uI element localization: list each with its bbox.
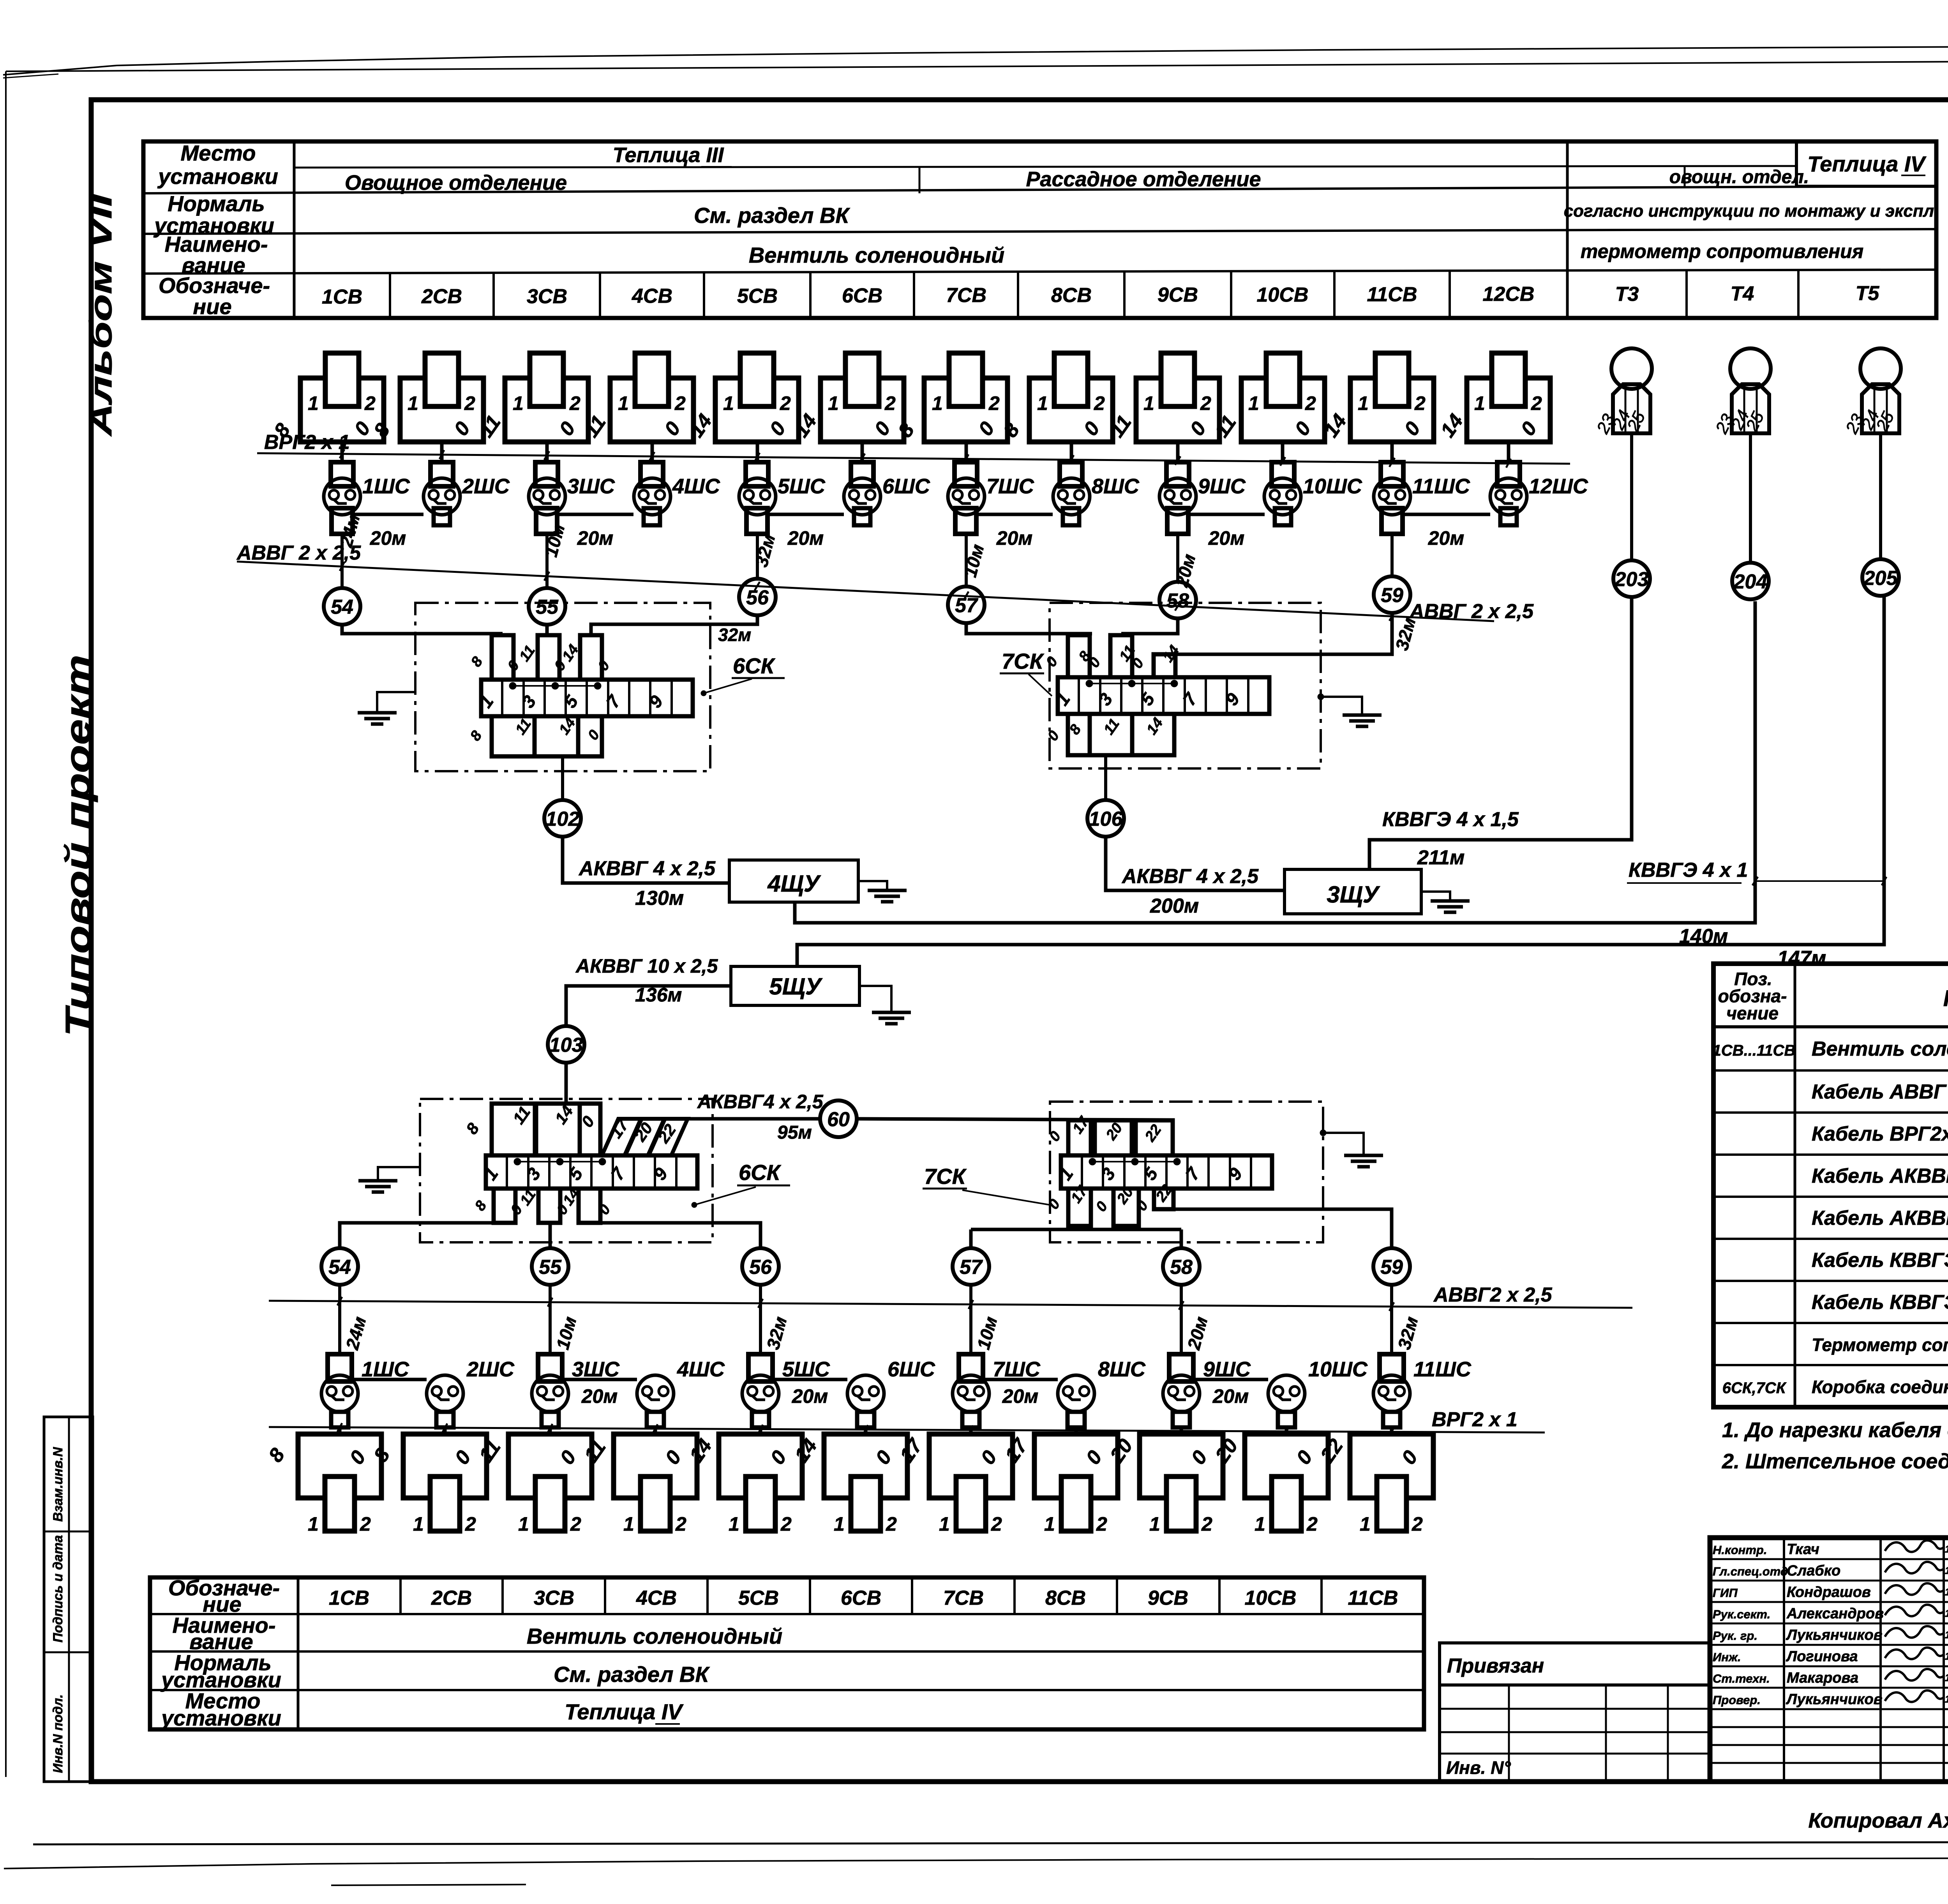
6СК (lower) lower taps [494, 1189, 515, 1223]
svg-text:5ШС: 5ШС [782, 1358, 830, 1381]
solenoid valve 3СВ (bottom row) [508, 1434, 592, 1498]
solenoid valve 4СВ (top row) [610, 378, 693, 442]
svg-text:1: 1 [729, 1513, 739, 1535]
svg-text:Кабель АВВГ 2х2,5 ГОСТ 16442: Кабель АВВГ 2х2,5 ГОСТ 16442-80 [1812, 1081, 1948, 1103]
wire 6СК to 55 (lower) [549, 1223, 552, 1248]
svg-text:Типовой проект: Типовой проект [58, 655, 98, 1037]
plug connector 4ШС (top row) [641, 462, 663, 486]
svg-text:Инж.: Инж. [1713, 1650, 1741, 1664]
wire 56 to 6СК [591, 615, 757, 635]
svg-text:55: 55 [539, 1256, 562, 1279]
plug connector 3ШС (lower row) [538, 1354, 562, 1381]
svg-text:58: 58 [1166, 590, 1189, 612]
svg-text:4СВ: 4СВ [636, 1587, 677, 1609]
6СК (lower) slanted taps [602, 1119, 641, 1155]
parts table column lines [1794, 964, 1796, 1407]
svg-text:20м: 20м [1208, 527, 1245, 549]
wire КВВГЭ 4х1,5 Т3 to 3ЩУ [1369, 597, 1632, 869]
solenoid valve 9СВ (top row) [1136, 378, 1219, 442]
svg-text:3ЩУ: 3ЩУ [1327, 881, 1380, 908]
svg-text:1ШС: 1ШС [362, 1358, 409, 1381]
svg-text:Макарова: Макарова [1787, 1670, 1858, 1686]
solenoid valve 1СВ (bottom row) [298, 1434, 381, 1498]
svg-text:Привязан: Привязан [1447, 1655, 1544, 1677]
svg-text:10ШС: 10ШС [1308, 1358, 1368, 1381]
svg-text:согласно инструкции по монтажу: согласно инструкции по монтажу и экспл. [1564, 201, 1939, 221]
cable node circle 106 [1087, 800, 1124, 837]
6СК (top) terminal strip [481, 680, 693, 716]
svg-text:10СВ: 10СВ [1245, 1587, 1297, 1609]
svg-text:8СВ: 8СВ [1051, 284, 1092, 307]
wire bus ВРГ2х1 (lower) [269, 1427, 1545, 1432]
svg-text:5ЩУ: 5ЩУ [769, 973, 823, 1000]
plug connector 1ШС (top row) [331, 462, 353, 486]
svg-text:АКВВГ 4 х 2,5: АКВВГ 4 х 2,5 [578, 857, 716, 880]
solenoid valve 8СВ (bottom row) [1034, 1434, 1118, 1498]
bus crossing ticks ВРГ (lower) [337, 1423, 342, 1432]
plug connector 8ШС (lower row) [1058, 1375, 1094, 1412]
solenoid valve 10СВ (bottom row) [1245, 1434, 1328, 1498]
svg-text:термометр сопротивления: термометр сопротивления [1581, 240, 1863, 262]
svg-text:11ШС: 11ШС [1412, 475, 1470, 498]
wire 4ЩУ to 140м run [795, 601, 1755, 923]
resistance thermometer Т5 [1860, 348, 1901, 389]
svg-text:130м: 130м [635, 887, 684, 910]
svg-text:Теплица IV: Теплица IV [1807, 152, 1927, 176]
svg-text:211м: 211м [1417, 846, 1465, 869]
svg-text:Термометр сопротивления гр.23: Термометр сопротивления гр.23 ТСМ 6097 [1812, 1335, 1948, 1355]
svg-text:2ШС: 2ШС [466, 1358, 515, 1381]
plug connector 1ШС (lower row) [328, 1354, 352, 1381]
top table col line 4324 [1684, 166, 1686, 187]
7СК (top) ground [1318, 694, 1324, 700]
svg-text:1: 1 [618, 392, 629, 414]
6СК (top) lower taps [492, 716, 535, 756]
svg-text:10ШС: 10ШС [1303, 475, 1362, 498]
svg-text:Взам.инв.N: Взам.инв.N [51, 1447, 65, 1522]
svg-text:4ЩУ: 4ЩУ [767, 871, 821, 897]
sheet torn top edge [3, 41, 1948, 75]
sheet outer bottom line [33, 1842, 1948, 1844]
wire 54 to 6СК [342, 625, 503, 634]
svg-text:2: 2 [1531, 392, 1542, 414]
solenoid valve 9СВ (bottom row) [1140, 1434, 1223, 1498]
wire 103 to 6СК lower [565, 1063, 568, 1104]
svg-text:136м: 136м [635, 984, 682, 1006]
svg-text:20м: 20м [1428, 527, 1465, 549]
svg-text:8СВ: 8СВ [1045, 1587, 1086, 1609]
svg-text:Ткач: Ткач [1787, 1541, 1819, 1558]
svg-text:14.01.86: 14.01.86 [1945, 1607, 1948, 1619]
svg-text:6СК: 6СК [733, 654, 776, 678]
plug connector 7ШС (top row) [955, 462, 977, 486]
svg-text:2: 2 [780, 1513, 792, 1535]
svg-text:14.01.86: 14.01.86 [1945, 1693, 1948, 1705]
plug connector 12ШС (top row) [1497, 462, 1520, 486]
sheet outer left edge [5, 71, 7, 1777]
solenoid valve 7СВ (top row) [924, 378, 1008, 442]
resistance thermometer Т3 [1611, 348, 1652, 389]
svg-text:54: 54 [328, 1256, 351, 1279]
wire bus ВРГ2х1 (top) [257, 453, 1570, 464]
wire 7СК to 59 (lower) [1173, 1209, 1392, 1248]
svg-text:См. раздел ВК: См. раздел ВК [554, 1662, 710, 1687]
svg-text:Александров: Александров [1786, 1606, 1884, 1622]
cable node circle 56 (top) [739, 579, 776, 615]
solenoid valve 11СВ (bottom row) [1350, 1434, 1433, 1498]
svg-text:6СК: 6СК [739, 1160, 782, 1185]
svg-text:Теплица III: Теплица III [613, 143, 724, 167]
svg-text:2: 2 [464, 392, 475, 414]
plug connector 2ШС (lower row) [427, 1375, 463, 1412]
plug connector 7ШС (lower row) [959, 1354, 983, 1381]
box 3ЩУ [1285, 869, 1421, 914]
svg-text:2: 2 [364, 392, 376, 414]
svg-text:2: 2 [1094, 392, 1105, 414]
left margin stamp table [44, 1417, 93, 1782]
3ЩУ ground [1421, 892, 1450, 901]
svg-text:Кондрашов: Кондрашов [1787, 1584, 1871, 1600]
svg-text:7СВ: 7СВ [943, 1587, 984, 1609]
svg-text:1: 1 [518, 1513, 529, 1535]
plug connector 4ШС (lower row) [637, 1375, 674, 1412]
top table Обозначение column lines [389, 273, 391, 318]
svg-text:102: 102 [546, 808, 580, 830]
svg-text:1: 1 [939, 1513, 950, 1535]
svg-text:54: 54 [331, 596, 353, 618]
svg-text:20м: 20м [370, 527, 406, 549]
wire 6СК to 54 (lower) [340, 1223, 505, 1248]
svg-text:103: 103 [549, 1034, 583, 1056]
svg-text:147м: 147м [1777, 947, 1826, 970]
cable drops with length labels (lower row) [338, 1285, 341, 1354]
svg-text:1: 1 [1143, 392, 1154, 414]
svg-text:2: 2 [1200, 392, 1211, 414]
bottom table header column line [297, 1577, 300, 1729]
svg-text:8ШС: 8ШС [1092, 475, 1140, 498]
svg-text:9ШС: 9ШС [1203, 1358, 1251, 1381]
svg-text:4ШС: 4ШС [677, 1358, 725, 1381]
plug connector 6ШС (top row) [851, 462, 873, 486]
7СК (lower) ground [1320, 1130, 1326, 1136]
svg-text:2: 2 [465, 1513, 476, 1535]
svg-text:АКВВГ4 х 2,5: АКВВГ4 х 2,5 [697, 1091, 824, 1113]
svg-text:Логинова: Логинова [1786, 1648, 1858, 1665]
4ЩУ ground [858, 881, 887, 890]
solenoid valve 5СВ (bottom row) [719, 1434, 802, 1498]
sheet torn bottom edge [4, 1856, 1948, 1869]
svg-text:2: 2 [884, 392, 896, 414]
cable node circle 204 [1732, 563, 1769, 599]
svg-text:2: 2 [780, 392, 791, 414]
top table col line T-section [1566, 140, 1569, 318]
wire 55 to 6СК [545, 625, 549, 635]
svg-text:203: 203 [1615, 568, 1649, 591]
svg-text:АВВГ 2 х 2,5: АВВГ 2 х 2,5 [236, 542, 361, 564]
cable node circle 60 [820, 1100, 857, 1137]
svg-text:14.01.86: 14.01.86 [1945, 1629, 1948, 1641]
svg-text:3СВ: 3СВ [527, 285, 567, 308]
top table frame [143, 141, 1936, 318]
svg-text:Рук. гр.: Рук. гр. [1713, 1629, 1757, 1643]
wire Т5 to 205 [1879, 433, 1882, 559]
plug connector 11ШС (top row) [1381, 462, 1403, 486]
cable node circle 55 (top) [529, 588, 565, 625]
cable node circle 205 [1862, 559, 1899, 596]
svg-text:5СВ: 5СВ [738, 1587, 779, 1609]
solenoid valve 6СВ (bottom row) [824, 1434, 907, 1498]
svg-text:14.01.86: 14.01.86 [1945, 1586, 1948, 1598]
svg-text:9СВ: 9СВ [1158, 284, 1198, 306]
svg-text:10СВ: 10СВ [1257, 284, 1309, 306]
5ЩУ ground [859, 986, 891, 1012]
svg-text:1: 1 [1474, 392, 1485, 414]
svg-text:58: 58 [1170, 1256, 1193, 1279]
bottom table frame [150, 1577, 1424, 1729]
wire 57 to 7СК [966, 623, 1092, 634]
svg-text:КВВГЭ 4 х 1,5: КВВГЭ 4 х 1,5 [1382, 808, 1519, 831]
svg-text:17.01.86: 17.01.86 [1945, 1543, 1948, 1555]
svg-text:ние: ние [193, 294, 231, 319]
6СК (top) ground [377, 692, 415, 713]
svg-text:1: 1 [932, 392, 943, 414]
svg-text:20м: 20м [787, 527, 824, 549]
solenoid valve 6СВ (top row) [820, 378, 904, 442]
top table row line r1 [294, 166, 1796, 168]
wire 147м run 5ЩУ to Т4 branch [797, 597, 1884, 966]
svg-text:7СК: 7СК [924, 1164, 967, 1189]
solenoid valve 2СВ (top row) [400, 378, 483, 442]
svg-text:20м: 20м [581, 1385, 618, 1407]
svg-text:2: 2 [570, 1513, 581, 1535]
plug connector 5ШС (top row) [746, 462, 768, 486]
7СК (lower) upper taps [1068, 1120, 1091, 1155]
junction box 7СК (top) outline [1050, 603, 1321, 768]
svg-text:56: 56 [749, 1256, 772, 1279]
svg-text:1: 1 [1358, 392, 1369, 414]
svg-text:Кабель КВВГЭ 4х1,5 ГОСТ 1: Кабель КВВГЭ 4х1,5 ГОСТ 1508-78 [1812, 1291, 1948, 1314]
svg-text:20м: 20м [577, 527, 614, 549]
svg-text:Кабель ВРГ2х1 ГОСТ433-73: Кабель ВРГ2х1 ГОСТ433-73 [1812, 1123, 1948, 1145]
svg-text:Ст.техн.: Ст.техн. [1713, 1672, 1770, 1685]
wire Т3 to 203 [1630, 433, 1633, 560]
svg-text:Гл.спец.отд: Гл.спец.отд [1713, 1565, 1788, 1578]
cable node circle 54 (top) [324, 588, 360, 625]
bus crossing ticks ВРГ (top) [340, 449, 344, 458]
cable node circle 54 (lower) [321, 1248, 358, 1285]
cable drops with length labels (top row) [341, 534, 344, 588]
7СК (top) lower taps [1068, 714, 1090, 755]
svg-text:3СВ: 3СВ [534, 1587, 574, 1609]
svg-text:14.01.86: 14.01.86 [1945, 1650, 1948, 1662]
svg-text:14.01.86: 14.01.86 [1945, 1672, 1948, 1683]
svg-text:2: 2 [569, 392, 581, 414]
title block Привязан box [1440, 1643, 1710, 1685]
svg-text:12ШС: 12ШС [1529, 475, 1588, 498]
solenoid valve 10СВ (top row) [1241, 378, 1325, 442]
solenoid valve 12СВ (top row) [1467, 378, 1550, 442]
svg-text:установки: установки [160, 1706, 281, 1730]
svg-text:1СВ...11СВ: 1СВ...11СВ [1713, 1042, 1796, 1059]
svg-text:Кабель КВВГЭ 4х1 ГОСТ 1: Кабель КВВГЭ 4х1 ГОСТ 1508-78 [1812, 1249, 1948, 1272]
cable node circle 103 [548, 1026, 584, 1063]
cable node circle 57 (lower) [953, 1248, 989, 1285]
svg-text:2: 2 [1305, 392, 1316, 414]
svg-text:Коробка соединительная КС-10: Коробка соединительная КС-10 ТУ36.1764-7… [1812, 1377, 1948, 1397]
title block frame [1710, 1538, 1948, 1782]
svg-text:6СК,7СК: 6СК,7СК [1722, 1379, 1787, 1397]
svg-text:Вентиль соленоидный: Вентиль соленоидный [1812, 1038, 1948, 1060]
svg-text:Вентиль соленоидный: Вентиль соленоидный [527, 1624, 782, 1648]
parts table frame [1713, 964, 1948, 1407]
svg-text:Альбом VII: Альбом VII [83, 193, 118, 436]
6СК (lower) upper taps [492, 1104, 535, 1155]
svg-text:См. раздел ВК: См. раздел ВК [694, 203, 850, 228]
wire 6СК to 102 [561, 756, 564, 800]
svg-text:Н.контр.: Н.контр. [1713, 1543, 1767, 1557]
svg-text:11СВ: 11СВ [1367, 283, 1417, 306]
top table col line 2360 [919, 168, 921, 193]
svg-text:9ШС: 9ШС [1198, 475, 1246, 498]
svg-text:2: 2 [988, 392, 1000, 414]
svg-text:6СВ: 6СВ [841, 1587, 881, 1609]
top table row line r2 [143, 186, 1936, 193]
cable node circle 57 (top) [948, 586, 985, 623]
svg-text:Рассадное отделение: Рассадное отделение [1026, 168, 1261, 191]
svg-text:2СВ: 2СВ [431, 1587, 472, 1609]
svg-text:4СВ: 4СВ [632, 285, 672, 307]
wire 59 to 7СК [1165, 613, 1392, 654]
plug connector 11ШС (lower row) [1380, 1354, 1404, 1381]
solenoid valve 2СВ (bottom row) [403, 1434, 487, 1498]
sheet outer top line [6, 59, 1948, 71]
svg-text:6СВ: 6СВ [842, 284, 882, 307]
svg-text:Теплица IV: Теплица IV [565, 1699, 684, 1724]
junction box 7СК (lower) outline [1050, 1102, 1323, 1242]
cable node circle 59 (top) [1374, 576, 1410, 613]
svg-text:60: 60 [827, 1108, 850, 1131]
svg-text:2: 2 [1414, 392, 1426, 414]
junction box 6СК (top) outline [415, 603, 710, 771]
cable node circle 102 [544, 800, 581, 837]
wire 7СК to 106 [1104, 755, 1107, 800]
svg-text:3ШС: 3ШС [567, 475, 615, 498]
svg-text:4ШС: 4ШС [672, 475, 720, 498]
svg-text:АВВГ 2 х 2,5: АВВГ 2 х 2,5 [1409, 600, 1534, 623]
svg-text:2: 2 [360, 1513, 371, 1535]
resistance thermometer Т4 [1730, 348, 1771, 389]
svg-text:14.01.86: 14.01.86 [1945, 1565, 1948, 1576]
svg-text:КВВГЭ 4 х 1: КВВГЭ 4 х 1 [1629, 859, 1748, 881]
svg-text:ВРГ2 х 1: ВРГ2 х 1 [1432, 1408, 1517, 1431]
plug connector 2ШС (top row) [431, 462, 453, 486]
svg-text:Вентиль соленоидный: Вентиль соленоидный [749, 243, 1004, 267]
title block inventory grid [1440, 1685, 1710, 1782]
svg-text:1: 1 [408, 392, 418, 414]
svg-text:6ШС: 6ШС [888, 1358, 935, 1381]
box 5ЩУ [731, 966, 859, 1005]
solenoid valve 1СВ (top row) [300, 378, 384, 442]
svg-text:1: 1 [413, 1513, 424, 1535]
svg-text:106: 106 [1089, 808, 1123, 830]
svg-text:57: 57 [960, 1256, 983, 1279]
svg-text:Лукьянчиков: Лукьянчиков [1786, 1691, 1883, 1708]
svg-text:установки: установки [157, 164, 278, 189]
plug connector 10ШС (top row) [1272, 462, 1294, 486]
solenoid valve 11СВ (top row) [1350, 378, 1434, 442]
svg-text:Т5: Т5 [1856, 282, 1880, 305]
solenoid valve 7СВ (bottom row) [929, 1434, 1013, 1498]
svg-text:1: 1 [308, 1513, 319, 1535]
svg-text:1СВ: 1СВ [329, 1587, 369, 1609]
svg-text:АВВГ2 х 2,5: АВВГ2 х 2,5 [1433, 1284, 1553, 1306]
svg-text:5ШС: 5ШС [778, 475, 826, 498]
svg-text:Наименование: Наименование [1943, 986, 1948, 1011]
7СК (lower) terminal strip [1061, 1155, 1272, 1189]
svg-text:АКВВГ 4 х 2,5: АКВВГ 4 х 2,5 [1121, 865, 1259, 888]
svg-text:2. Штепсельное соединение у: 2. Штепсельное соединение учтено на лист… [1722, 1450, 1948, 1473]
svg-text:7ШС: 7ШС [993, 1358, 1041, 1381]
bottom table row lines [150, 1613, 1424, 1615]
6СК (lower) ground [378, 1167, 420, 1181]
svg-text:1: 1 [834, 1513, 845, 1535]
box 4ЩУ [729, 860, 858, 902]
top table row line r3 [143, 229, 1936, 234]
svg-text:205: 205 [1863, 567, 1898, 590]
wire КВВГЭ 4х1 bracket [1755, 880, 1884, 882]
svg-text:2: 2 [1096, 1513, 1107, 1535]
svg-text:Слабко: Слабко [1787, 1563, 1840, 1579]
6СК (lower) terminal strip [486, 1155, 697, 1189]
wire 6СК to 56 (lower) [600, 1223, 760, 1248]
parts table row lines [1713, 1025, 1948, 1028]
top table box Теплица IV [1796, 141, 1936, 186]
svg-text:7СК: 7СК [1002, 649, 1045, 673]
svg-text:1. До нарезки кабеля длины: 1. До нарезки кабеля длины трасс уточнит… [1722, 1418, 1948, 1442]
svg-text:11ШС: 11ШС [1413, 1358, 1472, 1381]
svg-text:7ШС: 7ШС [986, 475, 1034, 498]
solenoid valve 3СВ (top row) [505, 378, 588, 442]
svg-text:1: 1 [1248, 392, 1259, 414]
svg-text:9СВ: 9СВ [1148, 1587, 1188, 1609]
svg-text:1: 1 [723, 392, 734, 414]
wire 58 to 7СК [1121, 618, 1178, 634]
svg-text:12СВ: 12СВ [1483, 283, 1535, 306]
svg-text:2: 2 [1201, 1513, 1212, 1535]
cable node circle 59 (lower) [1373, 1248, 1410, 1285]
wire bus АВВГ2х2,5 (lower) [269, 1301, 1632, 1308]
svg-text:Т3: Т3 [1615, 283, 1639, 306]
svg-text:Нормаль: Нормаль [168, 191, 265, 216]
svg-text:Кабель АКВВГ 10х2,5 ГОСТ 1: Кабель АКВВГ 10х2,5 ГОСТ 1508-78 [1812, 1207, 1948, 1229]
svg-text:Лукьянчиков: Лукьянчиков [1786, 1627, 1883, 1643]
svg-text:57: 57 [955, 594, 978, 617]
wire 102 to 4ЩУ [563, 837, 729, 883]
svg-text:Копировал Ахромова: Копировал Ахромова [1808, 1809, 1948, 1832]
plug connector 6ШС (lower row) [847, 1375, 884, 1412]
svg-text:56: 56 [746, 586, 769, 609]
top table row line r4 [143, 270, 1936, 274]
svg-text:55: 55 [536, 596, 559, 618]
svg-text:Рук.сект.: Рук.сект. [1713, 1607, 1770, 1621]
svg-text:2СВ: 2СВ [421, 285, 462, 308]
solenoid valve 5СВ (top row) [715, 378, 799, 442]
svg-text:59: 59 [1381, 584, 1403, 607]
solenoid valve 8СВ (top row) [1029, 378, 1113, 442]
6СК (top) upper taps [492, 635, 513, 680]
cable node circle 55 (lower) [532, 1248, 568, 1285]
wire 95м run 6СК to 7СК (lower) [688, 1117, 820, 1121]
